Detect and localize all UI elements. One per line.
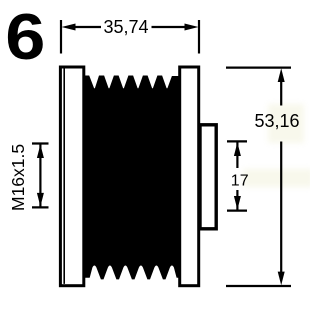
- dimension 35,74 : dimension line + arrows: [72, 26, 101, 28]
- svg-text:35,74: 35,74: [104, 17, 149, 37]
- right flange: [180, 67, 199, 286]
- svg-text:M16x1.5: M16x1.5: [8, 144, 28, 211]
- watermark blob near 53,16: [268, 104, 304, 143]
- dimension 53,16 : dimension line + arrows: [280, 78, 282, 106]
- dimension 17 : end ticks: [227, 140, 247, 142]
- pulley left flange: [60, 67, 83, 286]
- svg-text:6: 6: [5, 1, 45, 74]
- left flange inner lip line: [63, 69, 65, 284]
- dimension 35,74 : extension lines: [60, 20, 62, 54]
- dimension 53,16 : extension lines: [226, 66, 291, 68]
- hub step: [200, 125, 216, 229]
- watermark blob near 17: [243, 169, 313, 187]
- ribbed pulley body: [84, 76, 178, 280]
- dimension M16x1.5 : end ticks: [32, 142, 49, 144]
- dimension 17 : dimension line + arrows: [236, 142, 238, 168]
- svg-text:17: 17: [231, 173, 249, 190]
- svg-text:53,16: 53,16: [255, 111, 300, 131]
- dimension M16x1.5 : dimension line + arrows: [39, 144, 41, 207]
